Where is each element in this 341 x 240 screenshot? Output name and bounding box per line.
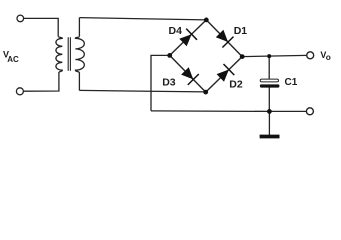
wire bridge side bottom-right: [206, 57, 243, 93]
terminal output Vo: [307, 52, 314, 59]
diode D4: [179, 29, 197, 47]
wire left node down to ground rail: [151, 55, 170, 111]
svg-text:AC: AC: [7, 55, 19, 64]
svg-text:C1: C1: [285, 77, 298, 88]
node ground rail junction: [267, 109, 272, 114]
wire primary bottom to terminal: [23, 73, 59, 92]
node bridge right: [240, 54, 245, 59]
diode D2: [217, 64, 235, 82]
wire bridge side left-bottom: [170, 55, 206, 92]
node C1 top junction: [267, 54, 271, 58]
wire right node to output: [242, 55, 306, 56]
terminal bottom-right: [306, 108, 313, 115]
capacitor C1: [260, 79, 280, 88]
ground stem: [268, 111, 270, 135]
wire bottom rail to bridge bottom: [79, 90, 205, 92]
wire ground rail: [151, 110, 306, 113]
wire top rail to bridge top: [79, 18, 206, 20]
diode D3: [181, 67, 199, 85]
wire C1 bottom stem: [268, 87, 270, 111]
node bridge top: [204, 18, 209, 23]
node bridge bottom: [203, 90, 208, 95]
terminal bottom-left: [16, 88, 23, 95]
svg-text:D4: D4: [169, 25, 183, 37]
svg-text:D3: D3: [162, 76, 176, 88]
terminal top-left: [17, 15, 24, 22]
diode D1: [216, 30, 234, 48]
svg-text:o: o: [326, 52, 331, 62]
wire bridge side top-right: [206, 20, 242, 57]
wire secondary bottom lead: [78, 73, 80, 91]
transformer core: [67, 37, 69, 71]
wire top-left to transformer primary: [24, 18, 59, 36]
svg-text:D2: D2: [229, 78, 243, 90]
transformer primary winding: [56, 36, 62, 73]
transformer secondary winding: [75, 36, 84, 73]
wire C1 top stem: [268, 56, 270, 79]
ground: [260, 135, 280, 139]
svg-text:D1: D1: [234, 25, 248, 37]
node bridge left: [167, 53, 172, 58]
wire bridge side left-top: [170, 20, 207, 56]
wire secondary top lead: [78, 18, 80, 37]
